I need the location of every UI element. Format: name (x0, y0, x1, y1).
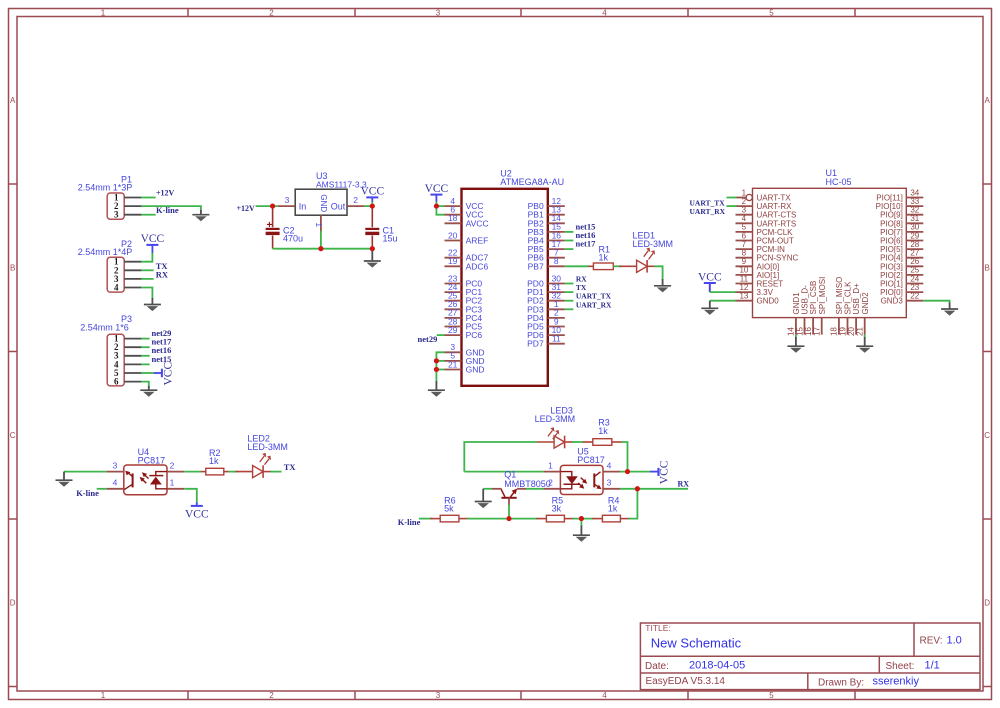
R4 lead left (592, 518, 602, 520)
wire PB7 to R1 (565, 265, 589, 267)
LED LED1 (633, 230, 674, 272)
vcc flag U3 (360, 185, 384, 202)
ground U1 GND3 (941, 303, 958, 316)
ground U4 (56, 472, 73, 487)
optocoupler U4 PC817 (124, 447, 167, 495)
U1 bottom pin stubs (796, 318, 865, 335)
ruler letters right (984, 96, 990, 608)
R4 lead right (620, 518, 630, 520)
wire net16 (565, 240, 574, 242)
ruler numbers bottom (101, 691, 775, 700)
ruler tick bottom 3 (520, 691, 522, 700)
U4 light arrows (140, 472, 149, 483)
svg-text:PC6: PC6 (466, 330, 483, 340)
svg-text:PD7: PD7 (527, 339, 544, 349)
wire UART_TX (U2) (565, 300, 574, 302)
svg-text:C: C (984, 431, 990, 440)
U3 pin 2 (347, 205, 364, 207)
R3 lead left (583, 441, 593, 443)
svg-text:21: 21 (856, 327, 865, 336)
svg-text:4: 4 (602, 691, 607, 700)
junction dot RX (635, 486, 640, 491)
svg-text:19: 19 (448, 256, 458, 266)
junction dots overlay (270, 204, 640, 521)
wire LED1 to ground (654, 266, 662, 280)
svg-text:8: 8 (554, 256, 559, 266)
wire net17 (565, 248, 574, 250)
svg-text:1: 1 (101, 691, 106, 700)
U2 left pin stubs (445, 206, 462, 369)
wire Q1 collector down (508, 505, 510, 519)
U1 right pin stubs (906, 198, 923, 301)
wire U2 gnd pin5 (436, 360, 444, 362)
vcc flag U4 (inverted) (185, 503, 209, 521)
junction dot U3 gnd (318, 246, 323, 251)
svg-text:SPI_MOSI: SPI_MOSI (818, 277, 827, 315)
wire P3 pin2 (141, 346, 149, 348)
junction dot U3 out (370, 204, 375, 209)
wire U5 pin1 (464, 471, 543, 473)
wire U5 pin3 to RX (620, 488, 688, 490)
optocoupler U5 PC817 (560, 447, 604, 495)
svg-text:In: In (299, 201, 307, 211)
svg-text:3k: 3k (552, 504, 562, 514)
U5 phototransistor (594, 472, 602, 490)
R3 lead right (612, 441, 622, 443)
wire R4 up to RX node (628, 489, 637, 519)
wire U4 pin4 K-line (97, 488, 107, 490)
R2 lead right (224, 471, 229, 473)
wire VCC to U1 pin12 (710, 291, 736, 293)
svg-text:2.54mm 1*3P: 2.54mm 1*3P (78, 182, 133, 192)
svg-text:3: 3 (607, 478, 612, 488)
svg-text:3: 3 (114, 210, 119, 220)
svg-text:MMBT8050: MMBT8050 (504, 479, 551, 489)
wire P1 pin3 (141, 214, 155, 216)
wire P3 pin6 to ground (141, 382, 148, 388)
svg-text:1k: 1k (608, 504, 618, 514)
ruler tick left A (9, 183, 18, 185)
svg-text:PC817: PC817 (138, 455, 166, 465)
vcc flag U5 rotated (650, 460, 670, 484)
vcc flag P3 rotated (154, 362, 175, 386)
vcc flag P2 (141, 233, 165, 253)
junction dot R3/VCC (625, 469, 630, 474)
svg-text:LED-3MM: LED-3MM (247, 442, 288, 452)
svg-text:Sheet:: Sheet: (886, 661, 915, 672)
svg-text:GND: GND (466, 365, 485, 375)
wire P1 pin1 (141, 197, 155, 199)
ruler tick left B (9, 351, 18, 353)
U4 pin stubs (107, 472, 185, 489)
wire VCC to U2 pins 4,6 (436, 202, 444, 215)
svg-text:RX: RX (678, 479, 690, 488)
svg-text:2: 2 (269, 9, 274, 18)
svg-text:ADC6: ADC6 (466, 261, 489, 271)
svg-text:HC-05: HC-05 (826, 177, 852, 187)
LED1 lead (619, 265, 636, 267)
junction dot U2 gnd5 (434, 358, 439, 363)
ruler tick bottom 2 (354, 691, 356, 700)
svg-text:GND2: GND2 (861, 292, 870, 315)
svg-text:5: 5 (769, 9, 774, 18)
svg-text:GND3: GND3 (881, 297, 904, 306)
resistor R3 (593, 418, 612, 446)
svg-text:TX: TX (284, 462, 297, 472)
connector P2 (78, 239, 142, 293)
svg-text:5k: 5k (444, 504, 454, 514)
ruler tick right B (983, 351, 992, 353)
svg-text:D: D (984, 599, 990, 608)
svg-text:A: A (10, 96, 16, 105)
junction dot center rail (579, 516, 584, 521)
svg-text:470u: 470u (283, 234, 303, 244)
svg-text:3: 3 (436, 9, 441, 18)
junction dot U2 vcc (434, 204, 439, 209)
svg-text:22: 22 (910, 292, 919, 301)
svg-text:1/1: 1/1 (925, 660, 940, 672)
resistor R5 (546, 495, 564, 521)
wire +12V to U3 (256, 205, 278, 207)
svg-text:+12V: +12V (156, 189, 175, 198)
svg-text:1k: 1k (209, 456, 219, 466)
svg-text:29: 29 (448, 325, 458, 335)
svg-text:ATMEGA8A-AU: ATMEGA8A-AU (500, 177, 564, 187)
wire K-line to R6 (419, 518, 432, 520)
wire Q1 junction to R5 (509, 518, 538, 520)
module U1 HC-05 (753, 168, 907, 318)
resistor R2 (206, 448, 224, 475)
capacitor C2 (266, 206, 303, 249)
svg-text:K-line: K-line (156, 205, 179, 215)
ground U1 pin21 (856, 337, 873, 353)
svg-text:Q1: Q1 (504, 469, 516, 479)
ruler tick left D (9, 686, 18, 688)
svg-text:2: 2 (353, 195, 358, 205)
svg-text:2: 2 (269, 691, 274, 700)
U1 bottom pin numbers (787, 327, 865, 336)
svg-text:18: 18 (448, 213, 458, 223)
svg-text:13: 13 (739, 292, 748, 301)
ground U1 pin13 (701, 301, 718, 315)
capacitor C1 (365, 206, 397, 249)
svg-text:AMS1117-3.3: AMS1117-3.3 (316, 179, 367, 189)
MCU U2 ATMEGA8A-AU (462, 169, 565, 386)
svg-text:EasyEDA V5.3.14: EasyEDA V5.3.14 (646, 676, 726, 687)
wire R1 to LED1 (613, 265, 621, 267)
ruler numbers top (101, 9, 775, 18)
svg-text:PC817: PC817 (577, 455, 605, 465)
wire U1 pin21 to ground (864, 335, 866, 338)
svg-text:4: 4 (113, 478, 118, 488)
svg-text:1.0: 1.0 (947, 635, 962, 647)
svg-text:B: B (10, 264, 15, 273)
wire VCC to out (371, 202, 373, 207)
U2 left pin numbers (448, 196, 458, 369)
vcc flag U2 (425, 183, 449, 202)
wire P1 pin2 to ground (141, 206, 201, 211)
svg-text:net29: net29 (418, 334, 438, 344)
R6 lead right (459, 518, 469, 520)
wire R6 to Q1 junction (467, 518, 509, 520)
U5 pin stubs (543, 472, 620, 489)
U4 internal LED (149, 472, 167, 489)
svg-text:GND: GND (319, 194, 328, 212)
svg-text:4: 4 (114, 283, 119, 293)
svg-text:6: 6 (114, 377, 119, 387)
ruler tick bottom 1 (187, 691, 189, 700)
svg-text:5: 5 (769, 691, 774, 700)
transistor Q1 MMBT8050 (491, 469, 550, 505)
wire UART_TX to U1 (727, 197, 737, 199)
wire P3 pin4 (141, 363, 149, 365)
U1 left pin stubs (736, 198, 753, 301)
svg-text:LED-3MM: LED-3MM (535, 414, 576, 424)
svg-text:17: 17 (813, 327, 822, 336)
svg-text:21: 21 (448, 359, 458, 369)
ground U3 (364, 249, 381, 268)
svg-text:VCC: VCC (425, 183, 449, 195)
svg-text:4: 4 (602, 9, 607, 18)
junction dot at C2 tap (270, 204, 275, 209)
svg-text:15u: 15u (383, 234, 398, 244)
wire UART_RX (U2) (565, 308, 574, 310)
wire U1 pin13 to ground (710, 300, 736, 302)
svg-text:TITLE:: TITLE: (645, 623, 671, 633)
wire UART_RX to U1 (727, 205, 737, 207)
svg-text:Drawn By:: Drawn By: (818, 677, 864, 688)
U4 phototransistor (124, 471, 133, 490)
wire Q1 base left (483, 488, 492, 490)
svg-text:20: 20 (448, 230, 458, 240)
svg-text:UART_RX: UART_RX (690, 207, 726, 216)
svg-text:REV:: REV: (920, 636, 943, 647)
junction dot rail right (370, 246, 375, 251)
svg-text:VCC: VCC (658, 460, 670, 484)
ruler tick top 4 (687, 9, 689, 17)
wire R5 to center junction (572, 518, 594, 520)
vcc flag U1 (698, 271, 722, 292)
U2 right pin names (527, 201, 544, 349)
U1 left pin numbers (739, 188, 748, 300)
svg-text:VCC: VCC (163, 362, 175, 386)
svg-text:3: 3 (113, 461, 118, 471)
R5 lead left (536, 518, 546, 520)
svg-text:3: 3 (436, 691, 441, 700)
LED LED3 (535, 406, 576, 449)
U1 left pin names (757, 194, 799, 306)
svg-text:AREF: AREF (466, 236, 489, 246)
svg-text:GND0: GND0 (757, 297, 780, 306)
svg-text:2018-04-05: 2018-04-05 (689, 660, 745, 672)
U3 pin 1 (GND) (320, 215, 322, 232)
wire R3 to VCC corner (621, 442, 627, 472)
ground P3 (140, 386, 157, 397)
U1 right pin numbers (910, 188, 919, 300)
regulator U3 AMS1117-3.3 (295, 171, 367, 215)
R2 lead left (201, 471, 206, 473)
svg-text:LED-3MM: LED-3MM (633, 239, 674, 249)
wire U2 gnd pin21 (436, 369, 444, 371)
svg-text:1k: 1k (598, 426, 608, 436)
wire U3 out (364, 205, 372, 207)
wire U2 gnd pins (436, 352, 444, 382)
svg-text:2.54mm 1*6: 2.54mm 1*6 (80, 323, 129, 333)
wire LED3 to R3 (572, 441, 583, 443)
junction dot Q1 rail (507, 516, 512, 521)
svg-text:2: 2 (170, 461, 175, 471)
ruler tick bottom 4 (687, 691, 689, 700)
svg-text:4: 4 (607, 461, 612, 471)
svg-text:VCC: VCC (141, 233, 165, 245)
wire U2 pin4 (436, 205, 444, 207)
wire P2 pin4 to ground (141, 288, 152, 300)
svg-text:UART_RX: UART_RX (576, 300, 612, 309)
ruler tick top 1 (187, 9, 189, 17)
wire net29 U2 (437, 334, 445, 336)
LED LED2 (247, 434, 288, 478)
U5 light arrows (578, 478, 587, 489)
wire P2 pin3 (141, 278, 153, 280)
wire R2 to LED2 (228, 471, 237, 473)
ground U2 (428, 381, 445, 397)
U1 bottom pin names (792, 277, 870, 315)
LED3 branch: wire from left vertical (464, 442, 537, 472)
U2 right pin numbers (552, 196, 562, 344)
connector P1 (78, 175, 142, 220)
LED3 lead (537, 441, 554, 443)
svg-text:AVCC: AVCC (466, 218, 489, 228)
wire P2 pin2 (141, 269, 153, 271)
svg-text:Out: Out (331, 201, 346, 211)
svg-text:Date:: Date: (645, 661, 669, 672)
svg-text:net17: net17 (576, 239, 597, 249)
ruler tick right C (983, 518, 992, 520)
wire U4 pin2 to R2 (184, 471, 201, 473)
wire U1 GND3 to ground (923, 301, 949, 304)
ruler tick bottom 5 (854, 691, 856, 700)
ruler tick left C (9, 518, 18, 520)
ground Q1 (475, 489, 492, 508)
U5 internal LED (560, 472, 579, 489)
U3 pin 3 (278, 205, 295, 207)
svg-text:C: C (10, 431, 16, 440)
svg-text:PB7: PB7 (528, 261, 544, 271)
ground P1 (192, 210, 209, 221)
wire U4 pin3 to ground (64, 471, 107, 473)
resistor R4 (602, 495, 620, 521)
wire Q1 emitter to U5 pin2 (526, 488, 543, 490)
wire U3 gnd rail (273, 248, 373, 250)
resistor R6 (440, 495, 459, 521)
svg-text:1: 1 (314, 222, 324, 227)
wire P2 pin1 to VCC (141, 253, 152, 262)
wire TX (U2) (565, 291, 574, 293)
wire P3 pin3 (141, 355, 149, 357)
wire U3 pin1 down (320, 231, 322, 249)
ground center rail (573, 519, 590, 542)
wire P3 pin1 (141, 338, 149, 340)
ground P2 (144, 298, 161, 311)
ground LED1 (654, 279, 671, 292)
wire P3 pin5 (141, 372, 153, 374)
ruler letters left (10, 96, 16, 608)
svg-text:sserenkiy: sserenkiy (873, 676, 920, 688)
svg-text:RX: RX (156, 270, 169, 280)
LED2 lead (236, 471, 253, 473)
U2 right pin stubs (548, 206, 565, 344)
svg-text:3: 3 (285, 195, 290, 205)
ruler tick top 2 (354, 9, 356, 17)
svg-text:D: D (10, 599, 16, 608)
svg-text:VCC: VCC (185, 508, 209, 520)
wire U1 pin14 to ground (795, 335, 797, 338)
svg-text:1: 1 (548, 461, 553, 471)
connector P3 (80, 314, 141, 387)
R5 lead right (564, 518, 574, 520)
svg-text:K-line: K-line (398, 517, 421, 527)
svg-text:B: B (985, 264, 990, 273)
svg-text:1k: 1k (599, 253, 609, 263)
svg-text:1: 1 (101, 9, 106, 18)
svg-text:A: A (985, 96, 991, 105)
wire LED2 to TX (270, 471, 281, 473)
ground U1 pin14 (787, 337, 804, 353)
svg-text:K-line: K-line (76, 488, 99, 498)
svg-text:VCC: VCC (698, 271, 722, 283)
wire net15 (565, 231, 574, 233)
svg-text:1: 1 (170, 478, 175, 488)
ruler tick right A (983, 183, 992, 185)
wire U4 pin1 to VCC (184, 489, 197, 504)
R6 lead left (430, 518, 440, 520)
ruler tick top 3 (520, 9, 522, 17)
svg-text:+: + (266, 220, 272, 231)
R1 lead left (588, 265, 593, 267)
svg-text:VCC: VCC (360, 185, 384, 197)
svg-text:11: 11 (552, 334, 561, 344)
junction dot U2 gnd21 (434, 367, 439, 372)
U1 right pin names (876, 194, 904, 306)
resistor R1 (593, 244, 613, 269)
svg-text:New Schematic: New Schematic (651, 636, 742, 651)
wire RX (U2) (565, 283, 574, 285)
svg-text:2.54mm 1*4P: 2.54mm 1*4P (78, 247, 133, 257)
svg-text:+12V: +12V (237, 204, 256, 213)
U2 left pin names (466, 201, 489, 374)
wire U5 pin4 to VCC (620, 471, 651, 473)
ruler tick right D (983, 686, 992, 688)
title block (640, 623, 980, 690)
ruler tick top 5 (854, 9, 856, 17)
U1 pin1 bubble (746, 194, 752, 200)
